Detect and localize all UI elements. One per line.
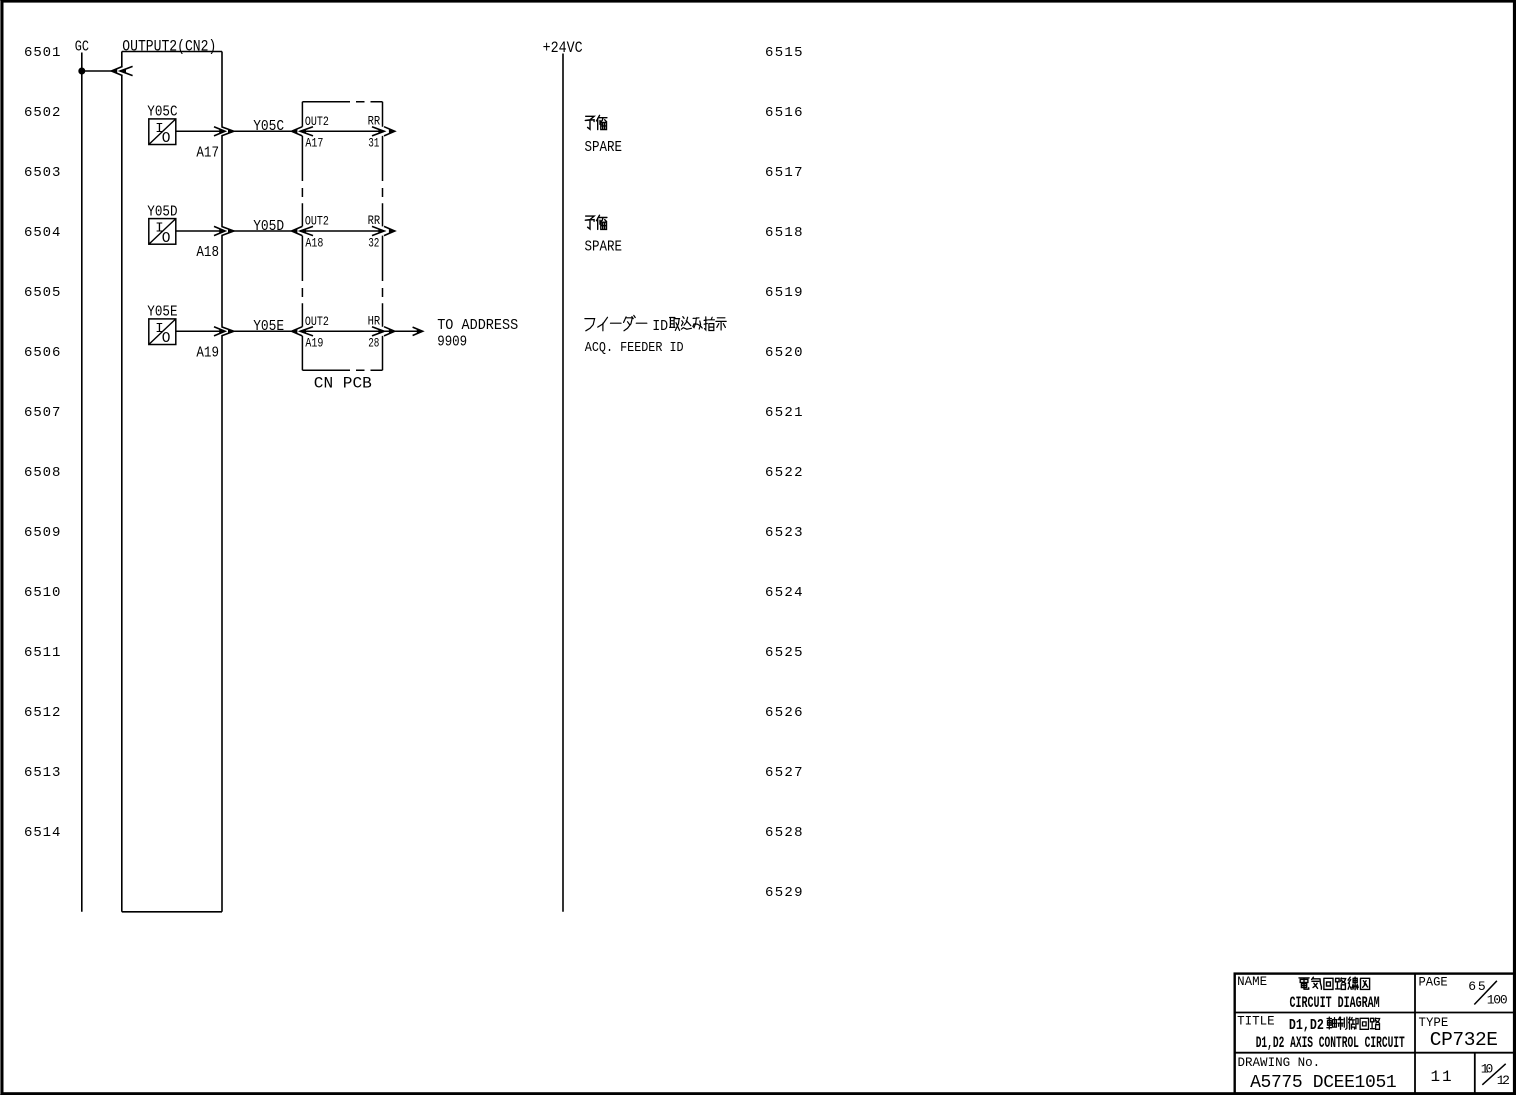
svg-text:Y05C: Y05C (147, 104, 177, 121)
title block h divider 2 (1235, 1052, 1515, 1054)
arrow chevrons into OUTPUT2 (CN2) (111, 66, 122, 75)
svg-text:6525: 6525 (765, 645, 803, 661)
I/O driver Y05D box (149, 219, 176, 245)
svg-text:6522: 6522 (765, 465, 803, 481)
arrow chevrons Y05D out of CN PCB (372, 226, 384, 235)
svg-text:SPARE: SPARE (585, 139, 623, 156)
title 電気回路線図 kanji (1299, 978, 1309, 989)
svg-text:6502: 6502 (24, 105, 60, 121)
svg-text:OUT2: OUT2 (305, 314, 329, 329)
svg-text:6505: 6505 (24, 285, 60, 301)
title block h divider 1 (1235, 1012, 1515, 1014)
I/O driver Y05D diagonal (149, 219, 176, 245)
svg-text:CIRCUIT DIAGRAM: CIRCUIT DIAGRAM (1290, 994, 1380, 1012)
svg-text:6516: 6516 (765, 105, 803, 121)
svg-text:PAGE: PAGE (1419, 975, 1448, 989)
svg-text:12: 12 (1497, 1073, 1510, 1088)
svg-text:A19: A19 (196, 345, 219, 362)
comment 予備 (spare) row Y05C (585, 116, 594, 129)
svg-text:CP732E: CP732E (1430, 1029, 1498, 1051)
svg-text:6518: 6518 (765, 225, 803, 241)
comment feeder ID acquisition (katakana/kanji) row Y05E (585, 319, 595, 331)
svg-text:6524: 6524 (765, 585, 803, 601)
svg-text:SPARE: SPARE (585, 239, 623, 256)
wire Y05E to address 9909 (384, 330, 422, 332)
svg-text:6501: 6501 (24, 45, 60, 61)
svg-text:6520: 6520 (765, 345, 803, 361)
wire Y05D output to OUTPUT2 edge (176, 230, 225, 232)
arrow chevrons Y05E at OUTPUT2 edge (214, 327, 225, 336)
svg-text:6511: 6511 (24, 645, 60, 661)
connector OUTPUT2(CN2) outline box (122, 52, 222, 912)
arrow chevrons Y05E out of CN PCB (372, 327, 384, 336)
svg-text:6529: 6529 (765, 885, 803, 901)
title block outline (1235, 974, 1515, 1094)
arrow chevrons Y05C at OUTPUT2 edge (214, 127, 225, 136)
svg-text:6517: 6517 (765, 165, 803, 181)
I/O driver Y05C box (149, 119, 176, 145)
svg-text:6519: 6519 (765, 285, 803, 301)
svg-text:6504: 6504 (24, 225, 60, 241)
I/O driver Y05E box (149, 319, 176, 345)
svg-text:D1,D2: D1,D2 (1289, 1017, 1324, 1034)
svg-text:O: O (162, 131, 171, 147)
wire GC to OUTPUT2 connector (82, 70, 111, 72)
arrow chevrons Y05E into CN PCB (292, 327, 303, 336)
svg-text:6506: 6506 (24, 345, 60, 361)
wire Y05C to CN PCB (234, 130, 291, 132)
svg-text:DRAWING No.: DRAWING No. (1238, 1056, 1321, 1070)
svg-text:6509: 6509 (24, 525, 60, 541)
svg-text:RR: RR (368, 213, 381, 228)
svg-text:6508: 6508 (24, 465, 60, 481)
svg-text:10: 10 (1481, 1062, 1494, 1077)
svg-text:Y05E: Y05E (253, 318, 284, 335)
wire Y05D to CN PCB (234, 230, 291, 232)
svg-text:11: 11 (1431, 1068, 1452, 1086)
svg-text:O: O (162, 331, 171, 347)
svg-text:6526: 6526 (765, 705, 803, 721)
comment 予備 (spare) row Y05D (585, 216, 594, 229)
arrowhead to address 9909 (413, 327, 423, 335)
svg-text:OUT2: OUT2 (305, 214, 329, 229)
svg-text:OUT2: OUT2 (305, 114, 329, 129)
svg-text:6515: 6515 (765, 45, 803, 61)
svg-text:HR: HR (368, 314, 381, 329)
svg-text:TO ADDRESS: TO ADDRESS (437, 318, 518, 334)
svg-text:100: 100 (1487, 993, 1508, 1008)
wire Y05E output to OUTPUT2 edge (176, 330, 225, 332)
svg-text:32: 32 (368, 235, 379, 250)
svg-text:A18: A18 (305, 235, 323, 250)
title block v divider row3 (1474, 1053, 1476, 1094)
svg-text:ID: ID (652, 319, 668, 335)
svg-text:6513: 6513 (24, 765, 60, 781)
svg-text:CN PCB: CN PCB (314, 374, 372, 392)
wire +24VC vertical rail (562, 54, 564, 912)
svg-text:6527: 6527 (765, 765, 803, 781)
svg-text:TYPE: TYPE (1419, 1016, 1449, 1030)
svg-text:OUTPUT2(CN2): OUTPUT2(CN2) (122, 38, 216, 56)
svg-text:6514: 6514 (24, 825, 60, 841)
wire Y05C output to OUTPUT2 edge (176, 130, 225, 132)
svg-text:Y05D: Y05D (147, 203, 177, 220)
I/O driver Y05C diagonal (149, 119, 176, 145)
svg-text:O: O (162, 231, 171, 247)
svg-text:31: 31 (368, 136, 379, 151)
arrow chevrons Y05C out of CN PCB (372, 127, 384, 136)
revision slash (1482, 1064, 1505, 1085)
title block v divider (1414, 974, 1416, 1094)
svg-text:ACQ. FEEDER ID: ACQ. FEEDER ID (585, 340, 684, 356)
wire Y05C inside CN PCB (300, 130, 384, 132)
svg-text:A19: A19 (305, 336, 323, 351)
svg-text:A5775 DCEE1051: A5775 DCEE1051 (1250, 1073, 1397, 1093)
I/O driver Y05E diagonal (149, 319, 176, 345)
svg-text:A18: A18 (196, 244, 219, 261)
svg-text:6521: 6521 (765, 405, 803, 421)
wire GC vertical rail (81, 53, 83, 912)
svg-text:A17: A17 (305, 136, 323, 151)
svg-text:28: 28 (368, 336, 379, 351)
wire Y05E inside CN PCB (300, 330, 384, 332)
junction dot on GC rail (78, 68, 85, 75)
svg-text:Y05D: Y05D (253, 218, 284, 235)
svg-text:TITLE: TITLE (1237, 1015, 1275, 1029)
svg-text:6507: 6507 (24, 405, 60, 421)
svg-text:RR: RR (368, 114, 381, 129)
svg-text:6512: 6512 (24, 705, 60, 721)
svg-text:Y05C: Y05C (253, 118, 284, 135)
arrow chevrons Y05C into CN PCB (292, 127, 303, 136)
svg-text:D1,D2 AXIS CONTROL CIRCUIT: D1,D2 AXIS CONTROL CIRCUIT (1256, 1034, 1405, 1052)
svg-text:6510: 6510 (24, 585, 60, 601)
arrow chevrons Y05D into CN PCB (292, 226, 303, 235)
svg-text:6503: 6503 (24, 165, 60, 181)
svg-text:NAME: NAME (1237, 975, 1267, 989)
svg-text:9909: 9909 (437, 334, 467, 350)
svg-text:65: 65 (1468, 979, 1486, 994)
arrow chevrons Y05D at OUTPUT2 edge (214, 226, 225, 235)
wire Y05E to CN PCB (234, 330, 291, 332)
page slash (1474, 981, 1497, 1005)
connector CN PCB chain-line box (302, 102, 382, 371)
svg-text:6523: 6523 (765, 525, 803, 541)
svg-text:6528: 6528 (765, 825, 803, 841)
wire Y05D inside CN PCB (300, 230, 384, 232)
svg-text:A17: A17 (196, 145, 219, 162)
